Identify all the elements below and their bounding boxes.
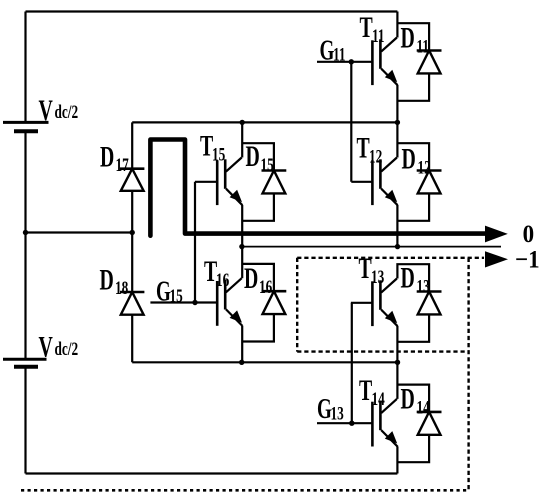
svg-text:13: 13 [331, 402, 344, 424]
label T11 [360, 11, 385, 47]
wire left rail lower [24, 367, 26, 474]
svg-text:15: 15 [170, 285, 183, 307]
label T15 [200, 130, 225, 166]
node thin line T12 emitter [395, 244, 400, 249]
wire T15 gate lead [195, 181, 217, 183]
transistor T11 [372, 38, 397, 86]
diode D18 [120, 292, 144, 315]
label D15 [246, 140, 274, 176]
wire T11 emitter [396, 85, 398, 122]
node midpoint left [23, 230, 28, 235]
node T11-T12 junction [395, 120, 400, 125]
node G11 [349, 59, 354, 64]
wire bottom rail [26, 472, 398, 474]
label D18 [100, 264, 129, 299]
diode D11 [417, 51, 442, 74]
svg-text:G: G [156, 276, 171, 308]
node T13-T14 junction [395, 360, 400, 365]
wire left rail upper [24, 12, 26, 123]
label D16 [244, 262, 272, 298]
wire T14 emitter [396, 446, 398, 473]
wire T16 emitter [241, 326, 243, 363]
node thin line left [239, 244, 244, 249]
svg-text:D: D [401, 262, 415, 295]
label Vdc/2 top [39, 94, 79, 127]
svg-text:11: 11 [417, 35, 430, 57]
svg-text:T: T [359, 252, 372, 285]
arrowhead -1 output [485, 251, 508, 267]
label D14 [401, 383, 430, 419]
dashed top edge to -1 arrow [297, 257, 484, 259]
label 0 [523, 221, 535, 248]
svg-text:16: 16 [259, 276, 272, 298]
label G15 [156, 276, 183, 308]
label D11 [401, 21, 430, 57]
svg-text:17: 17 [116, 154, 129, 176]
wire G13 gate lead T14 [317, 422, 372, 424]
label -1 [515, 246, 540, 273]
svg-text:12: 12 [418, 156, 431, 178]
svg-text:18: 18 [115, 277, 128, 299]
svg-text:D: D [402, 142, 416, 175]
wire left rail middle [24, 131, 26, 359]
transistor T13 [372, 279, 397, 327]
wire top rail [26, 10, 398, 12]
svg-text:dc/2: dc/2 [55, 337, 79, 359]
svg-text:D: D [100, 264, 114, 297]
label Vdc/2 bottom [39, 330, 79, 363]
label T12 [357, 132, 383, 168]
svg-text:14: 14 [372, 387, 385, 409]
svg-text:T: T [359, 374, 372, 407]
svg-text:13: 13 [417, 275, 430, 297]
transistor T15 [217, 158, 242, 206]
svg-text:V: V [39, 94, 54, 127]
wire T12 gate lead [351, 181, 372, 183]
label D17 [100, 141, 129, 176]
label T13 [359, 252, 385, 288]
wire T15 emitter [241, 205, 243, 247]
battery V2 Vdc/2 bottom [3, 359, 47, 367]
svg-text:15: 15 [261, 154, 274, 176]
diode D15 [262, 171, 287, 194]
wire T13 collector corner [397, 264, 429, 291]
svg-text:G: G [317, 393, 332, 425]
dashed bottom edge [21, 489, 469, 492]
wire D16 branch [242, 264, 274, 342]
svg-text:T: T [357, 132, 370, 165]
diode D13 [417, 292, 442, 315]
wire G11 gate lead T11 [317, 61, 372, 63]
wire T15 collector [241, 122, 243, 157]
wire G13 vertical [351, 303, 353, 423]
wire G15 gate lead T16 [150, 301, 217, 303]
wire bottom cell horizontal [132, 361, 397, 363]
label T14 [359, 374, 385, 410]
label T16 [204, 255, 229, 291]
svg-text:D: D [244, 262, 258, 295]
label D12 [402, 142, 431, 178]
diode D17 [120, 169, 144, 191]
svg-text:−1: −1 [515, 246, 540, 273]
svg-text:16: 16 [216, 269, 229, 291]
node G15 [192, 300, 197, 305]
node G13 [349, 421, 354, 426]
svg-text:0: 0 [523, 221, 535, 248]
svg-text:13: 13 [371, 266, 384, 288]
wire T11 collector [396, 12, 398, 38]
wire T13 emitter [396, 326, 398, 362]
wire clamp top horizontal [132, 121, 397, 123]
svg-text:T: T [200, 130, 213, 163]
wire D14 branch [397, 385, 429, 463]
svg-text:11: 11 [333, 43, 346, 65]
dashed right edge [467, 258, 469, 490]
wire D13 bottom [397, 314, 429, 341]
wire D18 branch [131, 233, 133, 363]
svg-text:15: 15 [212, 143, 225, 165]
wire T14 collector [396, 362, 398, 399]
svg-text:G: G [320, 35, 335, 67]
label D13 [401, 262, 430, 298]
node T16 emitter bottom [239, 360, 244, 365]
wire D15 branch [242, 143, 274, 221]
wire D11 branch [397, 23, 429, 101]
dashed box left edge [296, 258, 298, 352]
svg-text:D: D [401, 21, 415, 54]
wire T16 collector [241, 247, 243, 279]
svg-text:T: T [360, 11, 373, 44]
svg-text:V: V [39, 330, 54, 363]
node T15 collector top [240, 120, 245, 125]
wire thin output line [242, 246, 501, 248]
svg-text:12: 12 [369, 145, 382, 167]
wire midpoint [26, 231, 133, 233]
diode D16 [262, 291, 287, 314]
transistor T12 [372, 158, 397, 206]
label G13 [317, 393, 344, 425]
svg-text:14: 14 [417, 396, 430, 418]
wire D17 branch [131, 122, 133, 232]
diode D14 [417, 412, 442, 435]
wire T12 collector [396, 122, 398, 157]
diode D12 [417, 171, 442, 194]
svg-text:D: D [401, 383, 415, 416]
svg-text:dc/2: dc/2 [55, 101, 79, 123]
battery V1 Vdc/2 top [3, 122, 49, 131]
wire G15 vertical [194, 182, 196, 303]
wire D12 branch [397, 143, 429, 221]
arrowhead 0 output [485, 226, 508, 243]
node midpoint right [130, 230, 135, 235]
svg-text:T: T [204, 255, 217, 288]
wire thick waveform and 0 output [150, 140, 485, 236]
svg-text:11: 11 [372, 25, 385, 47]
wire T12 emitter [396, 205, 398, 247]
transistor T16 [217, 278, 242, 326]
label G11 [320, 35, 346, 67]
wire G11 vertical [350, 62, 352, 182]
svg-text:D: D [246, 140, 260, 173]
transistor T14 [372, 399, 397, 447]
svg-text:D: D [100, 141, 114, 174]
dashed box bottom edge [297, 350, 468, 352]
wire T13 gate lead [351, 302, 373, 304]
